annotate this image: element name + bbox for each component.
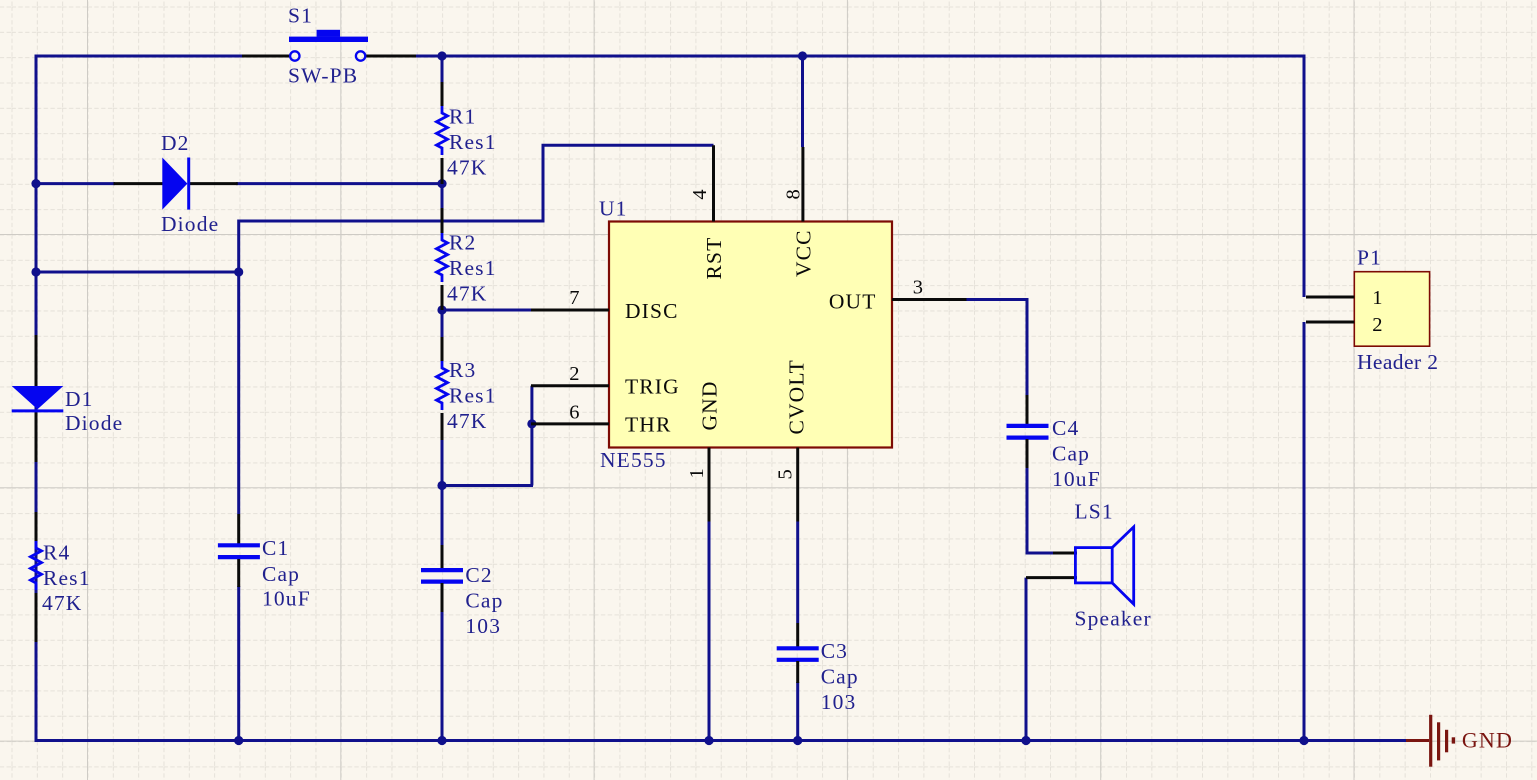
svg-text:RST: RST	[702, 237, 726, 280]
svg-text:10uF: 10uF	[1052, 467, 1101, 491]
svg-text:R3: R3	[449, 358, 476, 382]
svg-text:47K: 47K	[447, 282, 487, 306]
svg-text:Header 2: Header 2	[1357, 350, 1438, 374]
resistor R4 body	[31, 541, 42, 590]
capacitor C3 top pin	[796, 623, 799, 648]
pin 5 CVOLT	[796, 448, 799, 522]
switch S1 right pin	[366, 55, 416, 58]
wire DISC net	[442, 309, 532, 312]
resistor R2 bottom pin	[441, 285, 444, 310]
svg-text:NE555: NE555	[600, 448, 667, 472]
svg-text:2: 2	[1372, 314, 1383, 336]
svg-text:P1: P1	[1357, 246, 1382, 270]
wire pin1 GND column	[708, 522, 711, 741]
junction bottom rail P1	[1299, 736, 1308, 745]
wire node row y272	[36, 271, 239, 274]
wire R2 top stub	[441, 184, 444, 208]
diode D1 top pin	[35, 335, 38, 386]
svg-text:C2: C2	[465, 563, 492, 587]
svg-text:Cap: Cap	[262, 562, 300, 586]
wire top rail right of switch	[415, 55, 802, 58]
wire R1 top stub	[441, 56, 444, 83]
switch S1 body	[289, 37, 368, 42]
svg-text:GND: GND	[1462, 728, 1513, 753]
wire D2 net right	[236, 182, 444, 185]
svg-text:Cap: Cap	[1052, 442, 1090, 466]
svg-text:Res1: Res1	[449, 256, 497, 280]
svg-text:6: 6	[569, 401, 580, 423]
capacitor C1 body	[218, 543, 260, 547]
wire OUT net	[967, 300, 1028, 396]
diode D2 right pin	[189, 182, 238, 185]
resistor R1 body	[437, 106, 448, 155]
junction C1 column y272	[234, 267, 243, 276]
svg-text:R1: R1	[449, 105, 476, 129]
svg-text:C3: C3	[821, 639, 848, 663]
svg-text:R4: R4	[43, 541, 70, 565]
svg-text:10uF: 10uF	[262, 587, 311, 611]
svg-text:1: 1	[686, 467, 708, 478]
connector P1 body	[1354, 272, 1429, 347]
capacitor C4 top pin	[1026, 395, 1029, 426]
wire top rail to P1 corner	[800, 56, 1304, 297]
svg-text:Diode: Diode	[161, 212, 219, 236]
wire TRIG-THR vertical	[530, 386, 533, 486]
capacitor C2 top pin	[441, 545, 444, 570]
resistor R4 wire above	[35, 462, 38, 512]
wire C1 column top	[237, 272, 240, 514]
junction top rail at VCC	[798, 51, 807, 60]
wire THR node to C2 column	[442, 484, 533, 487]
svg-text:4: 4	[689, 188, 711, 199]
svg-text:CVOLT: CVOLT	[785, 359, 809, 434]
connector P1 pin 2	[1306, 321, 1354, 324]
svg-text:Res1: Res1	[43, 566, 91, 590]
pin 6 THR	[531, 422, 609, 425]
svg-text:1: 1	[1372, 287, 1383, 309]
svg-text:8: 8	[783, 188, 805, 199]
resistor R1 top pin	[441, 82, 444, 106]
svg-text:103: 103	[465, 614, 501, 638]
svg-text:S1: S1	[288, 4, 313, 28]
pin 1 GND	[708, 448, 711, 522]
capacitor C1 top pin	[237, 514, 240, 545]
resistor R2 body	[437, 233, 448, 282]
junction bottom rail C3	[793, 736, 802, 745]
resistor R1 bottom pin	[441, 158, 444, 184]
speaker LS1 bottom pin	[1026, 576, 1077, 579]
wire bottom rail	[35, 739, 1407, 742]
pin 8 VCC	[801, 147, 804, 222]
wire C1 bottom to rail	[237, 586, 240, 741]
svg-text:R2: R2	[449, 231, 476, 255]
wire C2 top stub	[441, 486, 444, 546]
junction bottom rail speaker	[1021, 736, 1030, 745]
capacitor C4 bottom pin	[1026, 439, 1029, 468]
capacitor C4 body	[1007, 424, 1049, 428]
svg-text:LS1: LS1	[1075, 500, 1114, 524]
capacitor C3 bottom pin	[796, 661, 799, 683]
capacitor C2 bottom pin	[441, 583, 444, 612]
connector P1 pin 1	[1306, 296, 1354, 299]
svg-text:Diode: Diode	[65, 411, 123, 435]
svg-text:47K: 47K	[447, 156, 487, 180]
wire pin5 to C3	[796, 522, 799, 624]
resistor R3 top pin	[441, 337, 444, 361]
resistor R3 bottom pin	[441, 413, 444, 440]
pin 7 DISC	[531, 309, 609, 312]
resistor R4 top pin	[35, 512, 38, 541]
svg-text:Res1: Res1	[449, 384, 497, 408]
svg-text:7: 7	[569, 287, 580, 309]
junction THR pin	[527, 419, 536, 428]
ground GND power port	[1406, 739, 1429, 742]
junction DISC at R2 bottom	[437, 305, 446, 314]
pin 2 TRIG	[531, 384, 609, 387]
speaker LS1 top pin	[1053, 552, 1077, 555]
wire left rail	[35, 55, 38, 743]
svg-text:103: 103	[821, 690, 857, 714]
resistor R4 bottom pin	[35, 593, 38, 642]
diode D2 left pin	[114, 182, 164, 185]
svg-text:Speaker: Speaker	[1075, 607, 1152, 631]
wire RST net	[239, 145, 714, 272]
wire speaker return to rail	[1025, 578, 1028, 741]
svg-text:3: 3	[913, 277, 924, 299]
junction left rail at D2 net	[31, 179, 40, 188]
junction left rail y272	[31, 267, 40, 276]
svg-text:U1: U1	[599, 197, 628, 221]
junction bottom rail C1	[234, 736, 243, 745]
diode D1 body	[12, 386, 64, 409]
switch S1 left pin	[242, 55, 290, 58]
resistor R3 body	[437, 361, 448, 410]
diode D1 bottom pin	[35, 412, 38, 462]
svg-text:OUT: OUT	[829, 289, 877, 313]
svg-text:THR: THR	[625, 413, 671, 437]
svg-text:DISC: DISC	[625, 299, 679, 323]
svg-text:C4: C4	[1052, 416, 1079, 440]
svg-text:SW-PB: SW-PB	[288, 64, 358, 88]
svg-text:Cap: Cap	[465, 589, 503, 613]
wire P1 pin2 drop	[1303, 322, 1306, 742]
capacitor C3 body	[777, 646, 819, 650]
svg-text:D1: D1	[65, 387, 94, 411]
svg-text:GND: GND	[698, 380, 722, 430]
junction bottom rail pin1	[704, 736, 713, 745]
svg-text:2: 2	[569, 363, 580, 385]
wire VCC drop pin8	[801, 55, 804, 148]
wire R3 bottom to node	[441, 438, 444, 487]
junction C2 column y485	[437, 481, 446, 490]
speaker LS1 body	[1075, 548, 1112, 583]
capacitor C2 body	[421, 568, 463, 572]
svg-text:Cap: Cap	[821, 665, 859, 689]
resistor R4 wire below	[35, 642, 38, 741]
wire D2 net left	[36, 182, 115, 185]
wire R1 to D2 node	[441, 158, 444, 184]
pin 4 RST	[712, 145, 715, 221]
wire top rail left segment	[36, 55, 242, 58]
resistor R2 top pin	[441, 208, 444, 233]
svg-text:Res1: Res1	[449, 130, 497, 154]
svg-text:VCC: VCC	[792, 229, 816, 277]
svg-text:47K: 47K	[42, 591, 82, 615]
wire C4 to speaker	[1027, 467, 1054, 553]
svg-text:D2: D2	[161, 131, 190, 155]
wire R3 top stub	[441, 310, 444, 337]
junction D2 net at R1 bottom	[437, 179, 446, 188]
pin 3 OUT	[892, 298, 967, 301]
svg-text:TRIG: TRIG	[625, 375, 680, 399]
diode D2 body	[162, 158, 187, 210]
ic U1 body	[609, 222, 892, 448]
junction top rail at R1	[437, 51, 446, 60]
svg-text:47K: 47K	[447, 409, 487, 433]
svg-text:5: 5	[774, 468, 796, 479]
wire C2 bottom to rail	[441, 610, 444, 741]
junction bottom rail C2	[437, 736, 446, 745]
wire C3 bottom to rail	[796, 682, 799, 741]
capacitor C1 bottom pin	[237, 559, 240, 587]
svg-text:C1: C1	[262, 536, 289, 560]
